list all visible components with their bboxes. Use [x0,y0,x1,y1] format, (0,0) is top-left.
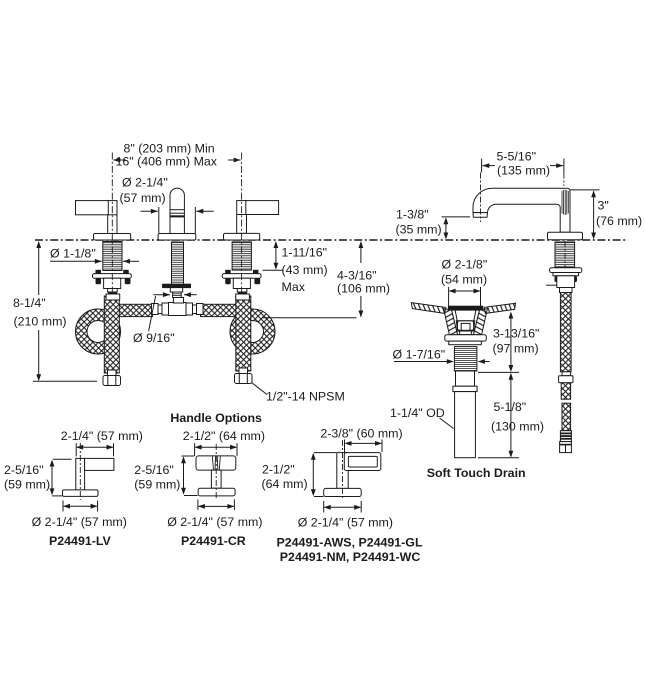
dim CR base: ticks arrows [198,499,235,510]
dim AWS height: line arrows extensions [311,453,336,497]
9/16 ribbed connector [173,292,182,298]
dim AWS base: ticks arrows [324,501,362,513]
svg-text:16" (406 mm) Max: 16" (406 mm) Max [116,155,218,169]
left vertical supply hose [104,296,119,373]
dim 1-3/8: line arrows extension [442,217,471,240]
svg-text:Soft Touch Drain: Soft Touch Drain [427,466,526,480]
dim 5-1/8: line and arrows [478,373,519,458]
left handle lever [76,201,118,234]
center escutcheon [158,234,196,241]
spout aerator tip [473,213,488,218]
svg-text:Ø 2-1/8": Ø 2-1/8" [442,258,488,272]
svg-text:8-1/4": 8-1/4" [13,296,46,310]
center tee assembly [152,303,204,316]
dim CR width: ticks arrows [195,443,237,456]
svg-text:Max: Max [282,280,306,294]
svg-text:Ø 2-1/4" (57 mm): Ø 2-1/4" (57 mm) [32,515,127,529]
dim LV width: ticks arrows [76,443,113,456]
dim AWS width: ticks arrows [345,440,383,453]
hose end fitting [560,442,572,453]
left escutcheon [94,234,131,241]
dim 3-13/16: line and arrows [478,312,519,373]
dim 3in height: line arrows extension [570,190,600,240]
svg-text:3-13/16": 3-13/16" [493,327,539,341]
svg-text:2-3/8" (60 mm): 2-3/8" (60 mm) [320,427,402,441]
spout bend shading [562,190,568,216]
svg-text:2-1/2": 2-1/2" [262,463,295,477]
dim LV height: line arrows extensions [50,459,72,496]
dim 8in-16in spread: arrows [113,158,240,163]
drain button [456,321,475,331]
svg-text:1-1/4" OD: 1-1/4" OD [390,406,445,420]
leader 1/2-14 NPSM [252,383,268,395]
svg-text:8" (203 mm) Min: 8" (203 mm) Min [124,142,215,156]
svg-text:(59 mm): (59 mm) [4,478,50,492]
right supply end fitting [235,368,253,384]
spout supply hose [560,293,571,372]
right escutcheon [224,233,260,240]
right handle center line [241,153,243,294]
spout side view body [473,188,570,232]
sink section right wing [484,303,515,313]
left handle center line [111,153,113,294]
spout shank flange above tee [163,284,191,287]
dim 1-11/16 max: line and arrows [263,241,284,270]
handle option CR center line [215,444,217,500]
dim dia 9/16 leader and arrows [149,292,197,331]
svg-text:(106 mm): (106 mm) [337,282,390,296]
handle option CR base [198,488,235,496]
handle option CR stem [211,470,221,488]
handle option LV center line [79,443,81,500]
handle option AWS center line [342,440,344,500]
spout valve body [546,276,575,293]
handle option CR head [196,456,236,470]
drain gasket flanges [445,335,487,345]
left valve body [104,278,121,300]
svg-text:(210 mm): (210 mm) [14,315,67,329]
hose end dark band [560,431,571,442]
center spout front view [170,188,184,233]
sink section left wing [411,303,446,314]
svg-text:P24491-LV: P24491-LV [49,534,111,548]
right mounting washer [222,270,261,284]
leader 1-1/4 OD [440,418,454,429]
tee vertical body [173,298,183,304]
drain flange rim [448,306,482,310]
svg-text:(64 mm): (64 mm) [262,477,308,491]
svg-text:1-3/8": 1-3/8" [396,208,429,222]
right handle lever [237,201,279,234]
right threaded shank [232,242,251,270]
svg-text:5-1/8": 5-1/8" [494,400,527,414]
dim dia 2-1/8 drain: ticks and arrows [449,287,481,306]
spout mounting washer [550,268,582,282]
dim 4-3/16: line and arrows [262,241,363,318]
spout center line [564,241,566,292]
svg-text:(57 mm): (57 mm) [120,191,166,205]
handle option AWS base [324,488,362,496]
hose segment after break [562,403,571,431]
svg-text:5-5/16": 5-5/16" [497,150,537,164]
svg-text:Handle Options: Handle Options [170,411,262,425]
handle option AWS stem [337,453,348,489]
svg-text:1/2"-14 NPSM: 1/2"-14 NPSM [266,390,345,404]
dim dia 1-1/8 shank: arrows [50,259,139,264]
svg-text:P24491-AWS, P24491-GL: P24491-AWS, P24491-GL [277,536,423,550]
right supply hose loop [230,309,275,354]
drain dome interior [452,310,480,335]
right vertical supply hose [236,296,251,371]
drain left wall section [444,309,458,335]
drain tailpiece [453,371,477,458]
svg-text:P24491-NM, P24491-WC: P24491-NM, P24491-WC [280,550,421,564]
deck line [35,239,628,241]
handle option LV base [63,490,99,497]
handle option AWS lever [344,453,381,471]
svg-text:(76 mm): (76 mm) [596,214,642,228]
svg-text:Ø 2-1/4": Ø 2-1/4" [122,176,168,190]
svg-text:Ø 2-1/4" (57 mm): Ø 2-1/4" (57 mm) [298,516,393,530]
svg-text:(135 mm): (135 mm) [497,164,550,178]
drain right wall section [473,309,487,335]
dim dia 1-7/16: arrows [394,359,490,364]
center threaded shank [172,242,184,285]
left mounting washer [93,270,132,284]
svg-text:Ø 2-1/4" (57 mm): Ø 2-1/4" (57 mm) [167,515,262,529]
spout threaded shank [555,242,575,268]
svg-text:(43 mm): (43 mm) [282,263,328,277]
left threaded shank [103,242,122,271]
dim CR height: line arrows extensions [181,456,197,496]
svg-text:4-3/16": 4-3/16" [337,269,377,283]
dim dia 2-1/4 spout: extension lines [158,207,160,233]
svg-text:1-11/16": 1-11/16" [282,246,328,260]
svg-text:(35 mm): (35 mm) [396,223,442,237]
svg-text:P24491-CR: P24491-CR [181,534,246,548]
right valve body [233,278,250,300]
svg-text:2-5/16": 2-5/16" [4,463,44,477]
left horizontal hose to tee [112,304,153,316]
svg-text:(54 mm): (54 mm) [441,273,487,287]
dim LV base: ticks arrows [63,501,98,512]
dim 8-1/4 height: line and arrows [33,241,97,381]
svg-text:Ø 1-1/8": Ø 1-1/8" [50,247,96,261]
svg-text:(97 mm): (97 mm) [493,342,539,356]
svg-text:(59 mm): (59 mm) [134,478,180,492]
hose coupling [559,372,573,383]
dim dia 2-1/4 spout: arrows [141,209,214,214]
svg-text:2-5/16": 2-5/16" [134,463,174,477]
hose segment below coupling [561,383,570,399]
svg-text:Ø 9/16": Ø 9/16" [133,331,175,345]
spout escutcheon [548,232,583,240]
svg-text:(130 mm): (130 mm) [491,420,544,434]
svg-text:2-1/4" (57 mm): 2-1/4" (57 mm) [61,429,143,443]
left supply end fitting [103,370,121,386]
handle option LV lever [76,458,114,490]
drain threads [454,347,477,371]
left supply hose loop [76,309,121,354]
svg-text:Ø 1-7/16": Ø 1-7/16" [393,348,446,362]
right horizontal hose to tee [201,304,241,316]
dim 5-5/16 spout reach: ticks and arrows [481,159,564,223]
svg-text:3": 3" [598,199,609,213]
svg-text:2-1/2" (64 mm): 2-1/2" (64 mm) [183,429,265,443]
